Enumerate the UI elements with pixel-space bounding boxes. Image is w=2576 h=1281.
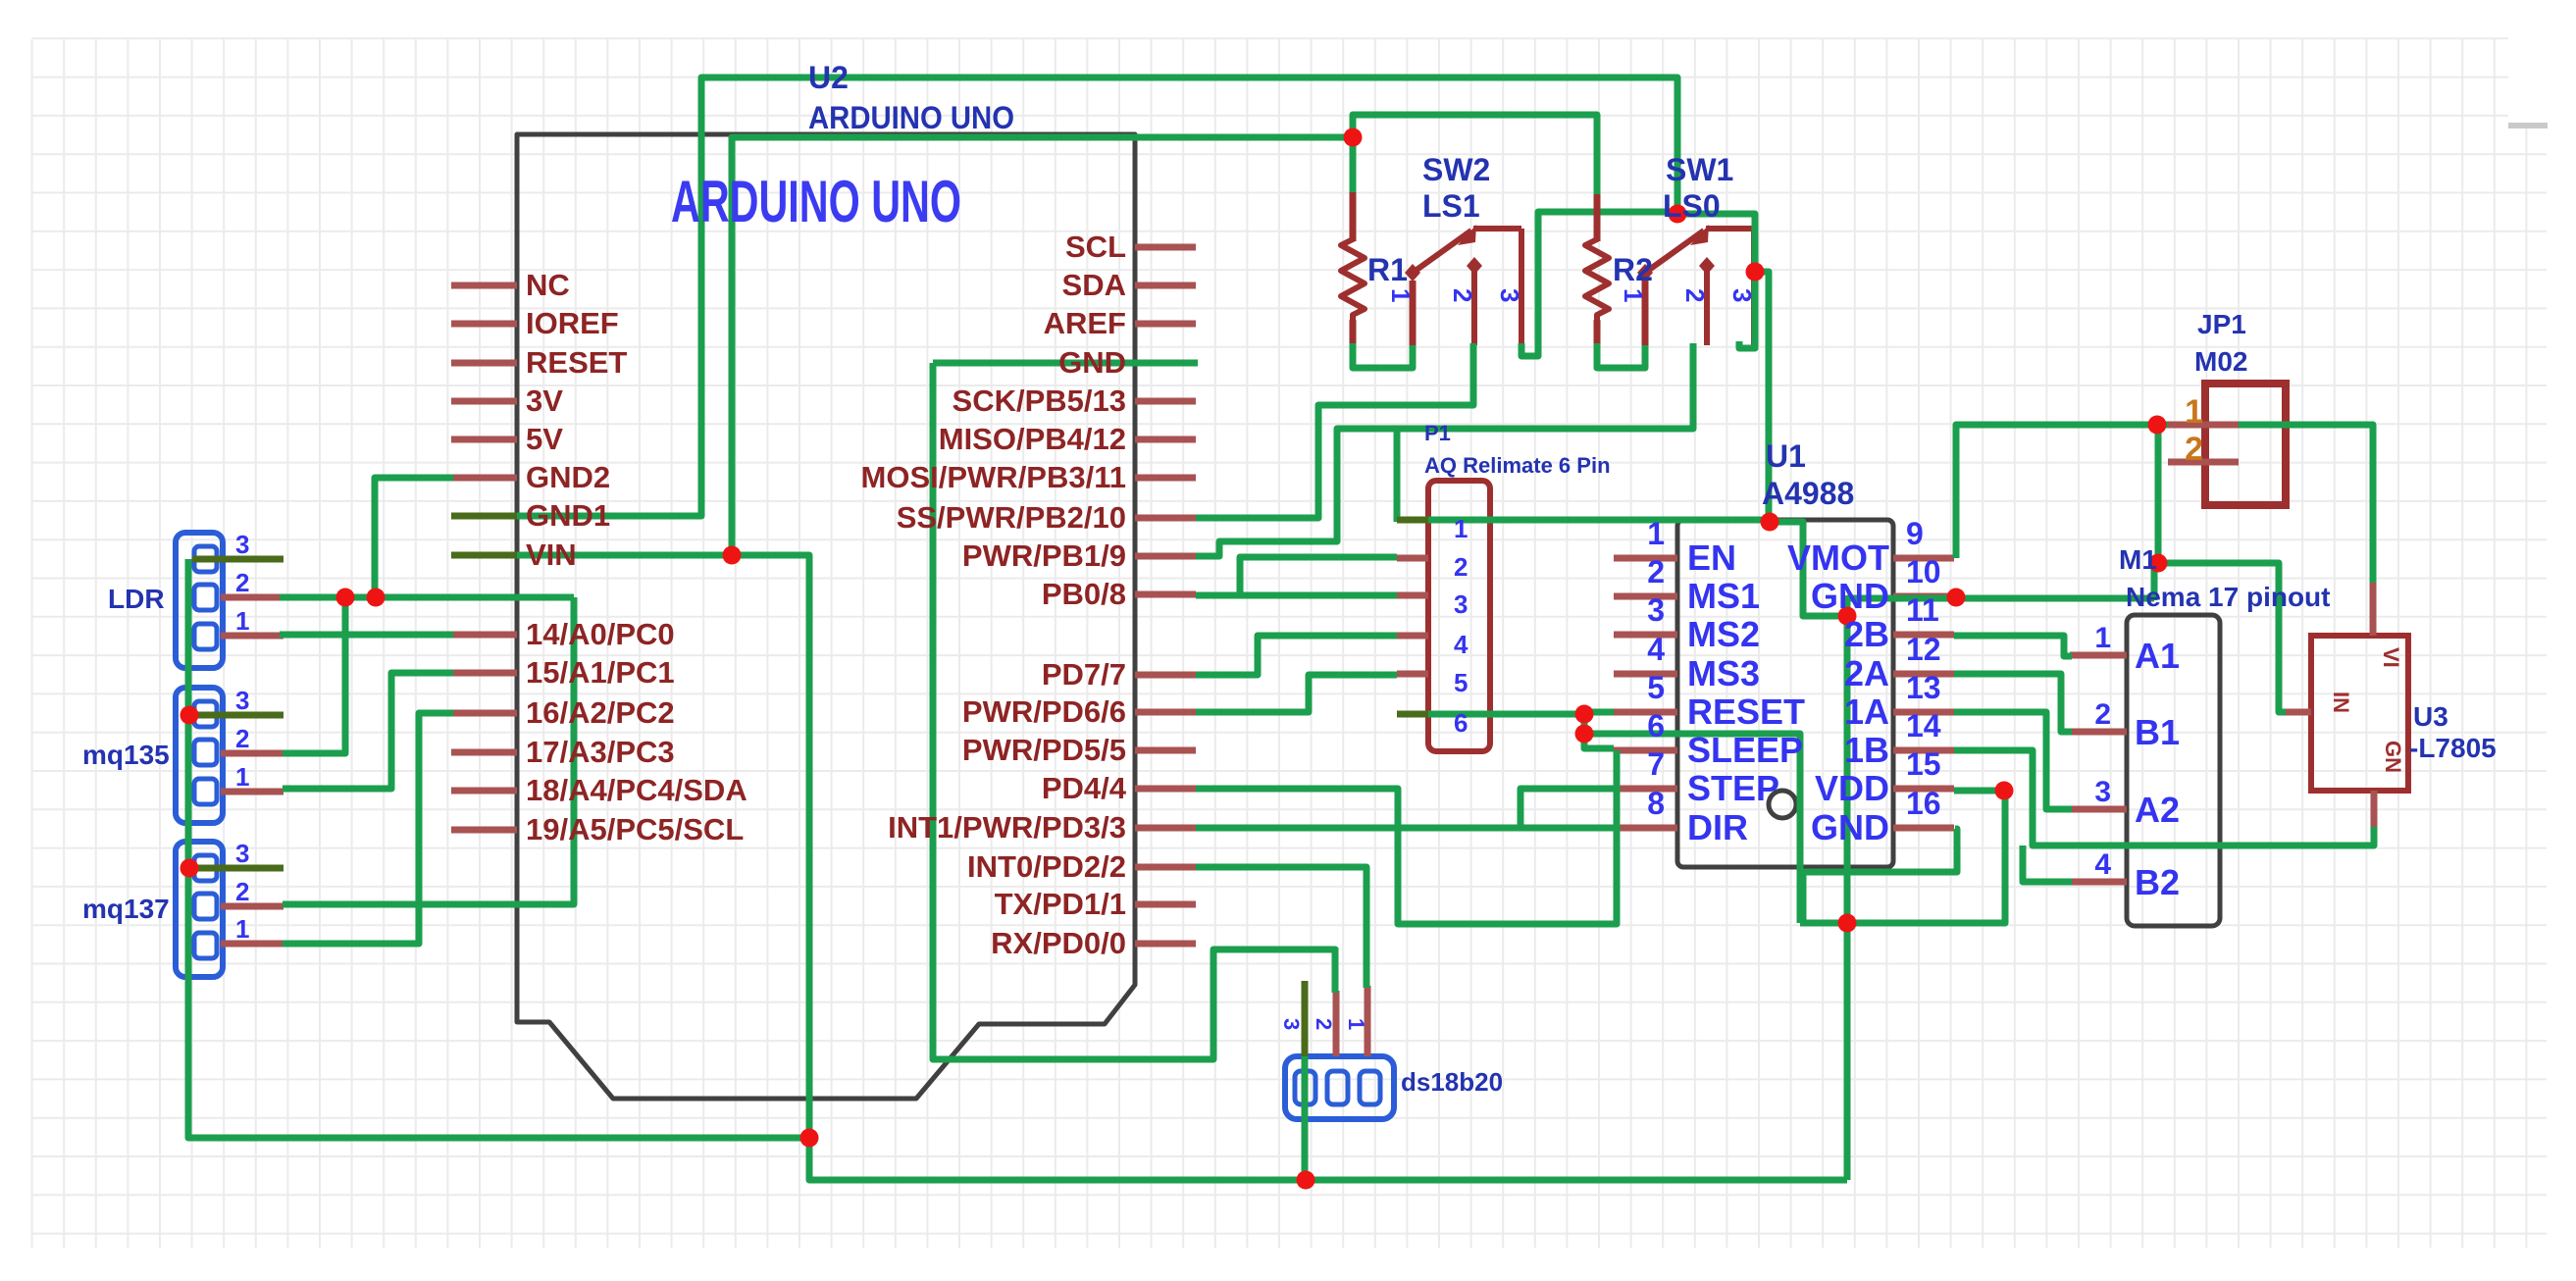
wire P1 pin6 row (1397, 711, 1584, 718)
svg-text:A2: A2 (2135, 790, 2180, 830)
junction GND10 stub end (1947, 589, 1966, 607)
wire bottom bus (809, 1138, 1847, 1180)
pin U2.NC stub (451, 282, 517, 289)
wire GND1 to SW1 throw3 (1677, 214, 1755, 348)
svg-text:2: 2 (1448, 288, 1477, 302)
pin P1.2 stub (1397, 555, 1428, 562)
svg-text:ARDUINO UNO: ARDUINO UNO (671, 169, 961, 234)
svg-text:MS2: MS2 (1687, 614, 1760, 654)
pin P1.1 stub (1397, 517, 1428, 524)
connector ds18b20 pad 2 (1327, 1071, 1348, 1104)
wire LDR2 down to mq137 pin2 (283, 597, 574, 904)
svg-text:3: 3 (1647, 592, 1665, 628)
svg-text:3: 3 (2094, 776, 2111, 808)
svg-text:3: 3 (235, 530, 249, 559)
wire PB1-9 to P1.1 SW1 mid (1196, 343, 1693, 556)
pin U1.4 stub (1614, 671, 1677, 678)
svg-text:SDA: SDA (1062, 268, 1126, 302)
pin U2.PD7/7 stub (1135, 672, 1196, 679)
svg-text:INT0/PD2/2: INT0/PD2/2 (967, 849, 1126, 884)
svg-text:GN: GN (2381, 741, 2405, 773)
pin U2.18/A4/PC4/SDA stub (451, 788, 517, 794)
wire ds18b20 pin2 link (1332, 948, 1339, 993)
pin conn858.2 stub (221, 903, 283, 910)
wire R1 bottom hook to SW2 common (1353, 343, 1413, 368)
ic U1 A4988 box (1677, 520, 1893, 867)
mcu U2 ARDUINO UNO outline (517, 134, 1135, 1099)
svg-text:2: 2 (235, 724, 249, 753)
wire GND2 drop to LDR2 (375, 478, 453, 597)
junction LDR2/mq135 (336, 589, 355, 607)
svg-text:TX/PD1/1: TX/PD1/1 (995, 887, 1126, 921)
wire mq135 pin1 to 15/A1 (283, 673, 453, 789)
wire SLEEP link (1584, 714, 1614, 748)
svg-text:4: 4 (2094, 848, 2111, 881)
wire R1 top lead green (1350, 137, 1357, 192)
svg-text:3V: 3V (526, 384, 563, 418)
svg-text:3: 3 (1279, 1018, 1304, 1030)
svg-text:5: 5 (1454, 668, 1468, 697)
svg-text:SCL: SCL (1065, 230, 1126, 264)
svg-text:1: 1 (1386, 288, 1416, 302)
svg-text:B1: B1 (2135, 712, 2180, 752)
svg-text:IN: IN (2329, 692, 2353, 713)
pin U2.PWR/PD6/6 stub (1135, 709, 1196, 716)
svg-text:U1: U1 (1766, 438, 1806, 474)
connector P1 box (1428, 481, 1490, 751)
svg-text:PB0/8: PB0/8 (1042, 577, 1126, 611)
svg-text:PWR/PD5/5: PWR/PD5/5 (962, 733, 1126, 767)
junction R1 top (1344, 128, 1363, 147)
svg-text:1: 1 (235, 606, 249, 636)
svg-text:13: 13 (1906, 670, 1941, 705)
svg-text:2: 2 (235, 877, 249, 906)
pin U1.15 stub (1893, 786, 1954, 793)
pin U2.SCK/PB5/13 stub (1135, 398, 1196, 405)
pin U2.VIN stub overlap (451, 552, 517, 559)
pin M1.1 stub (2070, 652, 2127, 659)
svg-text:2: 2 (235, 568, 249, 597)
wire JP1 pin2 riser (2155, 422, 2162, 563)
pin U2.5V stub (451, 436, 517, 443)
lead R1 top red (1350, 192, 1357, 241)
connector mq135 body (176, 688, 223, 823)
svg-text:STEP: STEP (1687, 768, 1779, 808)
wire LDR pin2 row (280, 594, 574, 601)
wire P1 pin1 row to A4988 EN (1397, 517, 1770, 524)
switch SW2 (1413, 229, 1521, 345)
svg-text:VMOT: VMOT (1787, 538, 1889, 578)
svg-text:GND1: GND1 (526, 498, 610, 533)
svg-text:1B: 1B (1844, 730, 1889, 770)
pin U1.16 stub (1893, 825, 1954, 832)
svg-text:AREF: AREF (1044, 306, 1126, 340)
wire VMOT riser JP1 pin1 row U3 top (1956, 425, 2373, 583)
pin U2.MISO/PB4/12 stub (1135, 436, 1196, 443)
svg-text:2: 2 (1312, 1018, 1336, 1030)
pin U2.14/A0/PC0 stub (451, 632, 517, 639)
junction mq135 pin3 (180, 706, 199, 725)
pin U2.RESET stub (451, 360, 517, 367)
wire GND10 row (1847, 595, 2154, 602)
connector JP1 box (2205, 384, 2286, 505)
pin U2.TX/PD1/1 stub (1135, 901, 1196, 908)
wire through A4988 to bottom (1584, 734, 1800, 923)
ic U1 pad circle (1769, 791, 1796, 818)
pin P1.1 stub overlap (1397, 517, 1428, 524)
svg-text:MOSI/PWR/PB3/11: MOSI/PWR/PB3/11 (861, 460, 1126, 494)
switch SW1 (1645, 229, 1754, 345)
pin U2.PWR/PB1/9 stub (1135, 553, 1196, 560)
resistor R2 (1585, 190, 1609, 345)
svg-text:SLEEP: SLEEP (1687, 730, 1803, 770)
svg-text:1: 1 (2094, 622, 2111, 654)
svg-text:GND: GND (1811, 807, 1889, 847)
pin U2.AREF stub (1135, 321, 1196, 328)
svg-text:3: 3 (1727, 288, 1757, 302)
svg-text:-L7805: -L7805 (2409, 733, 2497, 763)
svg-text:A1: A1 (2135, 636, 2180, 676)
svg-text:2: 2 (1454, 552, 1468, 582)
pin U2.3V stub (451, 398, 517, 405)
svg-text:12: 12 (1906, 632, 1941, 667)
svg-text:INT1/PWR/PD3/3: INT1/PWR/PD3/3 (888, 810, 1126, 845)
connector ds18b20 pad 1 (1295, 1071, 1315, 1104)
pin U2.19/A5/PC5/SCL stub (451, 827, 517, 834)
wire bottom run to VDD riser (1800, 791, 2005, 923)
wire PD7 to P1.4 (1196, 636, 1397, 675)
pin conn701.1 stub (221, 789, 283, 795)
pin U2.SDA stub (1135, 282, 1196, 289)
svg-text:15/A1/PC1: 15/A1/PC1 (526, 655, 675, 690)
pin P1.6 stub overlap (1397, 711, 1428, 718)
wire net GND1 main run (453, 77, 1677, 516)
svg-text:1: 1 (2185, 393, 2203, 431)
svg-text:17/A3/PC3: 17/A3/PC3 (526, 735, 675, 769)
svg-text:4: 4 (1454, 630, 1468, 659)
svg-text:1: 1 (1619, 288, 1648, 302)
pin U1.10 stub (1893, 593, 1954, 600)
pin U2.17/A3/PC3 stub (451, 749, 517, 756)
svg-text:GND2: GND2 (526, 460, 610, 494)
svg-text:2: 2 (1680, 288, 1710, 302)
pin M1.3 stub (2070, 806, 2127, 813)
wire STEP branch (1520, 789, 1614, 828)
pin U2.GND1 stub overlap (451, 513, 517, 520)
svg-text:B2: B2 (2135, 862, 2180, 902)
pin U2.INT0/PD2/2 stub (1135, 864, 1196, 871)
pin conn543.2 stub (221, 594, 283, 601)
svg-text:1: 1 (1344, 1018, 1368, 1030)
junction M1 node (2149, 554, 2168, 573)
junction ds18b20 bottom (1297, 1171, 1315, 1190)
svg-text:2A: 2A (1844, 653, 1889, 693)
pin U2.INT1/PWR/PD3/3 stub (1135, 825, 1196, 832)
svg-text:PWR/PD6/6: PWR/PD6/6 (962, 694, 1126, 729)
svg-text:DIR: DIR (1687, 807, 1748, 847)
svg-text:R1: R1 (1367, 252, 1408, 287)
regulator U3 inner marks (2329, 647, 2405, 773)
wire LDR1 to 14/A0 (280, 632, 453, 639)
pin U2.SCL stub (1135, 244, 1196, 251)
pin U1.9 stub (1893, 555, 1954, 562)
wire P1.1 riser (1394, 429, 1401, 522)
svg-text:2: 2 (2185, 431, 2203, 468)
pin JP1.1 stub (2168, 422, 2239, 429)
wire A4988 interior GND link (1844, 595, 1851, 616)
svg-text:1A: 1A (1844, 692, 1889, 732)
svg-text:P1: P1 (1424, 421, 1451, 445)
wire PD6 to P1.5 (1196, 675, 1397, 712)
svg-text:SCK/PB5/13: SCK/PB5/13 (953, 384, 1126, 418)
pin JP1.2 stub (2168, 459, 2239, 466)
svg-text:A4988: A4988 (1762, 476, 1854, 511)
svg-text:15: 15 (1906, 746, 1941, 782)
wire left rail (188, 559, 809, 1138)
pin ds18b20.1 stub (1365, 986, 1371, 1056)
wire mq135 pin2 riser (283, 597, 345, 753)
wire A4988 interior to bottom (1844, 616, 1851, 923)
junction SLEEP node (1575, 725, 1594, 743)
pin U1.6 stub (1614, 747, 1677, 754)
svg-text:PD4/4: PD4/4 (1042, 771, 1127, 805)
wire GND10 up to M1 node (2154, 563, 2158, 600)
svg-text:19/A5/PC5/SCL: 19/A5/PC5/SCL (526, 812, 744, 846)
wire R2 bottom hook to SW1 common (1597, 343, 1645, 368)
pin U3 top stub (2370, 581, 2377, 636)
svg-text:mq135: mq135 (82, 740, 170, 770)
svg-text:SS/PWR/PB2/10: SS/PWR/PB2/10 (897, 500, 1126, 535)
wire 2B to M1.1 (1954, 636, 2072, 656)
pin U2.MOSI/PWR/PB3/11 stub (1135, 475, 1196, 482)
pin conn701.2 stub (221, 750, 283, 757)
pin conn858.1 stub (221, 941, 283, 948)
pin U2.PB0/8 stub (1135, 591, 1196, 598)
pin P1.5 stub (1397, 671, 1428, 678)
svg-text:SW1: SW1 (1666, 152, 1733, 187)
svg-text:SW2: SW2 (1422, 152, 1490, 187)
svg-text:6: 6 (1454, 708, 1468, 738)
svg-text:14: 14 (1906, 708, 1941, 743)
svg-text:6: 6 (1647, 708, 1665, 743)
svg-text:LS0: LS0 (1663, 188, 1721, 224)
pin U1.2 stub (1614, 593, 1677, 600)
pin P1.3 stub (1397, 592, 1428, 599)
svg-text:ARDUINO UNO: ARDUINO UNO (808, 100, 1014, 135)
pin M1.2 stub (2070, 729, 2127, 736)
connector ds18b20 pad 3 (1360, 1071, 1380, 1104)
svg-text:1: 1 (1454, 514, 1468, 543)
connector LDR body (176, 533, 223, 668)
svg-text:2: 2 (1647, 554, 1665, 589)
junction VIN node (723, 546, 742, 565)
wire M1 node to U3 IN (2158, 563, 2311, 712)
svg-text:U3: U3 (2413, 701, 2448, 732)
wire bottom bus riser to A4988 (1844, 923, 1851, 1180)
svg-text:AQ Relimate 6 Pin: AQ Relimate 6 Pin (1424, 453, 1611, 478)
wire P1.2 branch (1240, 557, 1397, 595)
svg-text:NC: NC (526, 268, 570, 302)
svg-text:RESET: RESET (526, 345, 627, 380)
svg-text:RX/PD0/0: RX/PD0/0 (991, 926, 1126, 960)
svg-text:5V: 5V (526, 422, 563, 456)
svg-text:VDD: VDD (1815, 768, 1889, 808)
wire RESET link (1584, 712, 1614, 714)
pin mq135.3 stub (192, 712, 283, 719)
svg-text:U2: U2 (808, 60, 849, 95)
pin M1.4 stub (2070, 879, 2127, 886)
wire ds18b20 pin3 through (1302, 1056, 1309, 1180)
wire A4988 interior EN to GND junction (1770, 522, 1847, 616)
svg-text:7: 7 (1647, 746, 1665, 782)
svg-text:Nema 17 pinout: Nema 17 pinout (2126, 582, 2330, 612)
svg-text:3: 3 (1495, 288, 1524, 302)
wire mq137 pin1 to 16/A2 (283, 713, 453, 944)
svg-text:LDR: LDR (108, 584, 165, 614)
wire PB0-8 to P1.3 (1196, 592, 1397, 599)
svg-text:PWR/PB1/9: PWR/PB1/9 (962, 538, 1126, 573)
svg-text:R2: R2 (1613, 252, 1653, 287)
junction JP1 pin1 row (2148, 416, 2167, 435)
resistor R1 (1341, 190, 1365, 345)
pin U3 bottom stub (2371, 791, 2378, 829)
pin U2.16/A2/PC2 stub (451, 710, 517, 717)
wire PD4 row (1196, 789, 1398, 828)
pin mq137.3 stub (192, 865, 283, 872)
svg-text:PD7/7: PD7/7 (1042, 657, 1126, 692)
junction A4988 EN row (1761, 513, 1779, 532)
junction below A4988 (1838, 914, 1857, 933)
svg-text:GND: GND (1811, 576, 1889, 616)
pin U1.14 stub (1893, 747, 1954, 754)
pin U2.RX/PD0/0 stub (1135, 941, 1196, 948)
svg-text:GND: GND (1058, 345, 1126, 380)
svg-text:ds18b20: ds18b20 (1401, 1067, 1503, 1097)
wire SW1 node down to A4988 EN row (1755, 272, 1769, 522)
svg-text:RESET: RESET (1687, 692, 1805, 732)
wire VDD row link (1954, 788, 2005, 794)
pin U1.12 stub (1893, 671, 1954, 678)
wire U2 GND drop to ds18b20 pin2 (933, 363, 1335, 1059)
svg-text:16: 16 (1906, 786, 1941, 821)
svg-text:3: 3 (235, 839, 249, 868)
junction mq137 pin3 (180, 859, 199, 878)
svg-text:JP1: JP1 (2197, 309, 2246, 339)
lead R2 bottom (1594, 320, 1601, 345)
svg-text:VI: VI (2379, 647, 2403, 668)
pin U2.SS/PWR/PB2/10 stub (1135, 515, 1196, 522)
connector mq137 body (176, 842, 223, 977)
pin U2.VIN stub (451, 552, 517, 559)
wire U2 GND right inner (933, 360, 1198, 367)
wire VIN up-over to R1 top (732, 137, 1353, 555)
svg-text:2B: 2B (1844, 614, 1889, 654)
wire INT0 to ds18b20 pin1 (1196, 867, 1366, 988)
junction bottom left (800, 1129, 819, 1148)
pin U2.GND1 stub (451, 513, 517, 520)
svg-text:3: 3 (235, 686, 249, 715)
pin U1.3 stub (1614, 632, 1677, 639)
pin U2.GND stub (1135, 360, 1196, 367)
wire PB2-10 to SW2 mid (1196, 343, 1473, 518)
pin LDR.3 stub (192, 556, 283, 563)
svg-text:EN: EN (1687, 538, 1736, 578)
svg-text:M1: M1 (2119, 544, 2157, 575)
pin U1.13 stub (1893, 709, 1954, 716)
wire SW1 common lead (1642, 281, 1649, 345)
pin U2.15/A1/PC1 stub (451, 670, 517, 677)
connector M1 box (2127, 615, 2220, 926)
pin U1.1 stub (1614, 555, 1677, 562)
pin U1.5 stub (1614, 709, 1677, 716)
pin U3 IN stub (2286, 709, 2311, 716)
wire PD3 DIR row (1196, 825, 1614, 832)
pin U1.11 stub (1893, 632, 1954, 639)
pin ds18b20.3 stub (1302, 981, 1309, 1056)
svg-text:14/A0/PC0: 14/A0/PC0 (526, 617, 675, 651)
svg-text:M02: M02 (2194, 346, 2247, 377)
svg-text:18/A4/PC4/SDA: 18/A4/PC4/SDA (526, 773, 747, 807)
pin P1.4 stub (1397, 633, 1428, 640)
svg-text:MISO/PB4/12: MISO/PB4/12 (939, 422, 1126, 456)
svg-text:1: 1 (1647, 516, 1665, 551)
svg-text:IOREF: IOREF (526, 306, 619, 340)
pin U2.IOREF stub (451, 321, 517, 328)
wire R1 top jog to R2 top (1353, 115, 1597, 194)
svg-text:5: 5 (1647, 670, 1665, 705)
pin U2.PD4/4 stub (1135, 786, 1196, 793)
svg-text:VIN: VIN (526, 538, 577, 572)
svg-text:LS1: LS1 (1422, 188, 1480, 224)
regulator U3 box (2311, 636, 2408, 791)
svg-text:1: 1 (235, 914, 249, 944)
pin conn543.1 stub (221, 633, 283, 640)
wire GND16 under-box loop (1803, 829, 1957, 923)
svg-text:2: 2 (2094, 698, 2111, 731)
pin U2.PWR/PD5/5 stub (1135, 747, 1196, 754)
wire 2A to M1.2 (1954, 674, 2072, 732)
junction A4988 interior (1838, 607, 1857, 626)
junction VDD row (1995, 782, 2014, 800)
wire B2 branch (2023, 845, 2072, 882)
pin U1.7 stub (1614, 786, 1677, 793)
svg-text:9: 9 (1906, 516, 1924, 551)
svg-text:4: 4 (1647, 632, 1665, 667)
pin P1.6 stub (1397, 711, 1428, 718)
svg-text:1: 1 (235, 762, 249, 792)
svg-text:8: 8 (1647, 786, 1665, 821)
svg-text:3: 3 (1454, 589, 1468, 619)
svg-text:11: 11 (1906, 592, 1939, 628)
wire VIN main run (453, 555, 809, 1138)
lead R1 bottom (1350, 320, 1357, 345)
wire 1B to U3 bottom (1954, 750, 2374, 845)
svg-text:16/A2/PC2: 16/A2/PC2 (526, 695, 675, 730)
junction SW1 throw node (1746, 263, 1765, 282)
junction RESET node (1575, 705, 1594, 724)
svg-text:mq137: mq137 (82, 894, 170, 924)
svg-text:MS1: MS1 (1687, 576, 1760, 616)
pin U1.8 stub (1614, 825, 1677, 832)
svg-text:10: 10 (1906, 554, 1941, 589)
wire down to sleep line (1398, 750, 1617, 924)
pin ds18b20.2 stub (1333, 991, 1340, 1056)
wire 1A to M1.3 (1954, 712, 2072, 809)
connector ds18b20 box (1285, 1056, 1394, 1119)
junction GND2/LDR2 (367, 589, 386, 607)
svg-text:MS3: MS3 (1687, 653, 1760, 693)
junction GND1/SW1 top (1669, 205, 1687, 224)
